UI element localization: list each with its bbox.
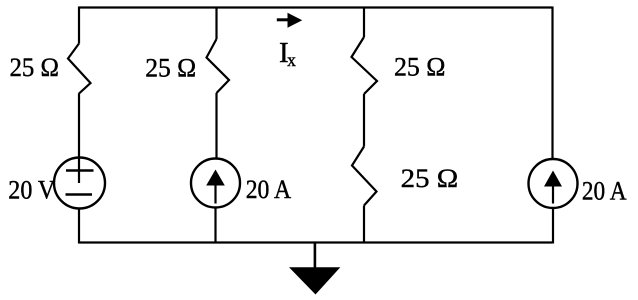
svg-text:20 A: 20 A [246,175,292,204]
wire branch2 mid [215,93,217,159]
current source I1 arrow head [206,170,225,186]
wire branch3 bottom [363,206,365,244]
wire branch2 top [215,7,217,40]
wire branch3 mid [363,94,365,147]
voltage source V1 circle [54,158,105,209]
current source I2 arrow head [544,171,562,187]
resistor R4 25ohm [352,147,377,206]
svg-text:20 A: 20 A [582,177,627,206]
wire branch1 top [78,7,80,44]
wire branch2 bottom [214,208,216,244]
svg-text:Ix: Ix [279,37,296,70]
bottom wire [79,241,553,243]
wire branch3 top [363,7,365,38]
voltage source V1 minus bar [66,193,93,196]
current arrow Ix [277,18,289,21]
top wire [79,6,553,8]
svg-text:25 Ω: 25 Ω [145,54,196,83]
current source I1 circle [191,159,240,208]
svg-text:20 V: 20 V [8,176,55,205]
current source I2 circle [529,159,578,208]
ground stub wire [314,243,317,269]
svg-text:25 Ω: 25 Ω [10,53,60,82]
resistor R3 25ohm [352,37,378,94]
wire branch4 top [551,7,553,160]
svg-text:25 Ω: 25 Ω [394,53,446,82]
ground [289,267,340,294]
wire branch1 bottom [78,209,80,244]
resistor R1 25ohm [68,44,91,95]
current source I2 arrow shaft [552,186,554,204]
wire branch4 bottom [552,208,554,244]
current source I1 arrow shaft [214,183,216,204]
wire branch1 mid [78,94,80,183]
svg-text:25 Ω: 25 Ω [401,164,459,193]
voltage source V1 plus bar [66,169,94,172]
resistor R2 25ohm [207,39,230,93]
